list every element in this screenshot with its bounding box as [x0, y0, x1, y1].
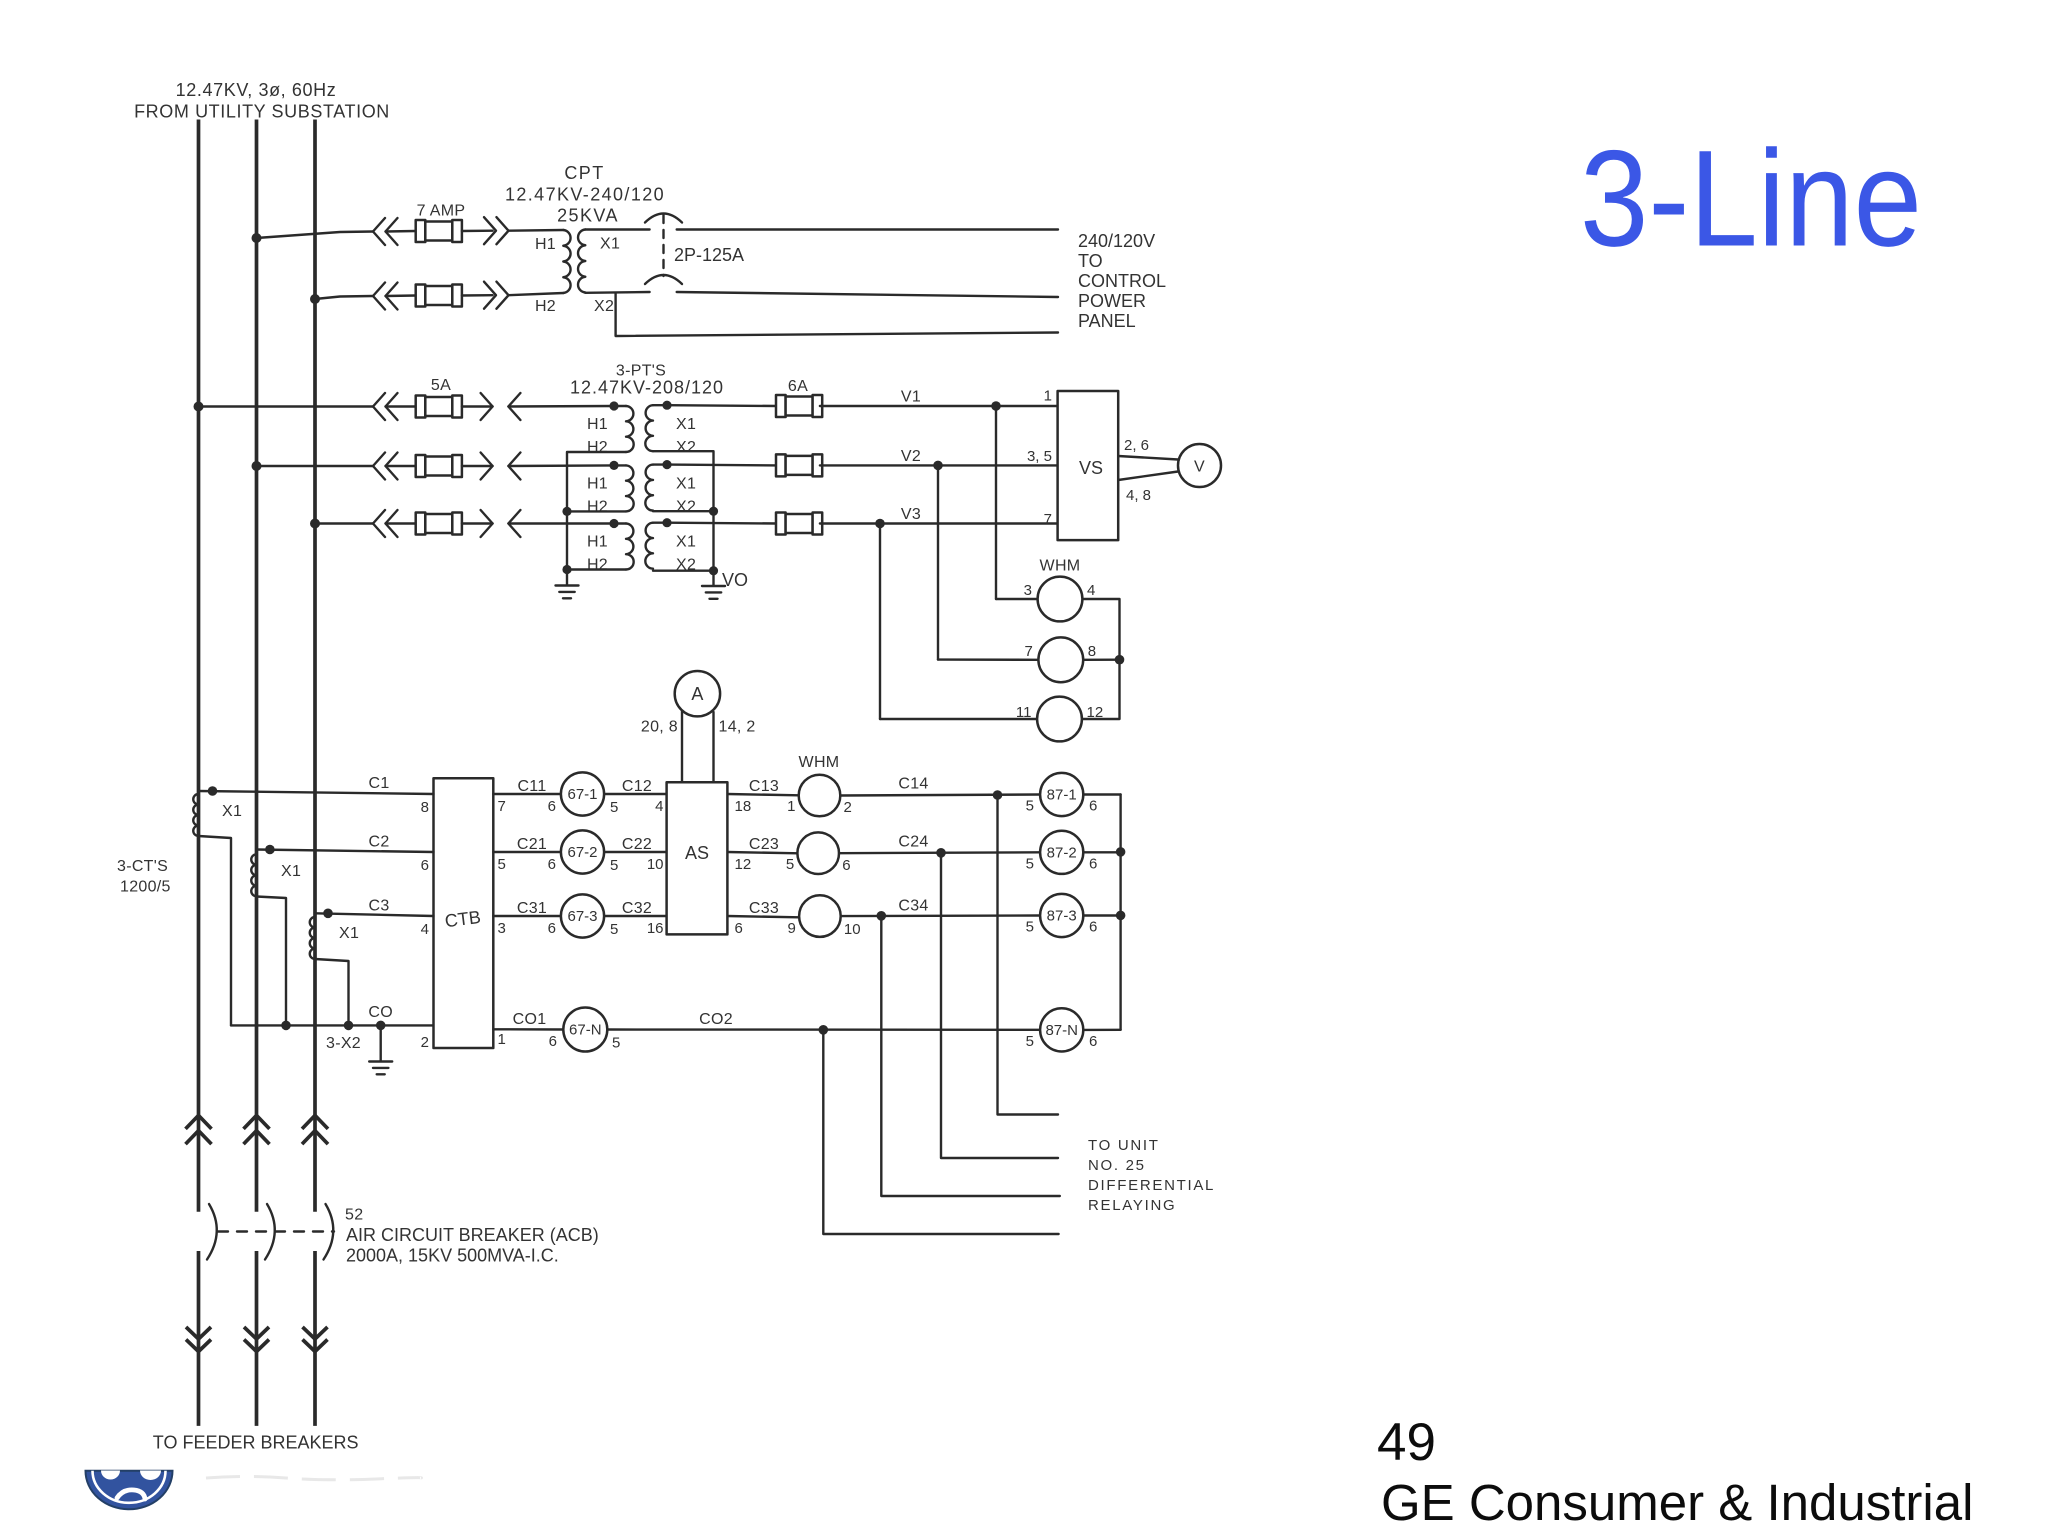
- svg-text:6: 6: [1089, 798, 1097, 815]
- svg-text:C13: C13: [749, 778, 779, 795]
- breaker 2P-125A dashed tie: [662, 215, 664, 276]
- wire to WHM coil 1: [996, 598, 1038, 600]
- node V2: [933, 461, 943, 471]
- svg-text:7: 7: [1024, 643, 1032, 660]
- svg-text:2: 2: [421, 1034, 429, 1051]
- relay 87-2: [1040, 831, 1083, 874]
- svg-text:X2: X2: [676, 439, 696, 456]
- wire V3 drop to WHM: [879, 524, 881, 720]
- svg-text:16: 16: [647, 920, 664, 937]
- wire C11: [493, 793, 561, 795]
- svg-text:C12: C12: [622, 778, 652, 795]
- node CO2: [819, 1025, 829, 1035]
- wire C12: [604, 793, 667, 795]
- svg-text:1200/5: 1200/5: [120, 879, 171, 896]
- ammeter switch AS box: [667, 782, 728, 934]
- svg-text:TO UNIT: TO UNIT: [1088, 1137, 1160, 1154]
- node CT1 X1: [208, 786, 218, 796]
- svg-text:NO. 25: NO. 25: [1088, 1157, 1146, 1174]
- bus drawout arrows up: [186, 1115, 212, 1129]
- node PT1 H1: [609, 401, 618, 410]
- svg-text:9: 9: [788, 920, 796, 937]
- svg-text:2, 6: 2, 6: [1124, 437, 1149, 454]
- svg-text:6: 6: [421, 857, 429, 874]
- svg-text:3-CT'S: 3-CT'S: [117, 858, 168, 875]
- svg-text:5: 5: [1026, 798, 1034, 815]
- fuse 5A PT2: [416, 455, 462, 477]
- current transformer CT3: [310, 917, 315, 959]
- svg-text:GE Consumer & Industrial: GE Consumer & Industrial: [1381, 1474, 1973, 1531]
- wire WHM coil 2 to common: [1083, 659, 1119, 661]
- drawout chevron: [373, 453, 385, 480]
- wire 87-N to common: [1083, 1029, 1120, 1031]
- wire: [614, 464, 626, 466]
- node PT2 H1: [609, 461, 618, 470]
- node CT2 X1: [265, 845, 275, 855]
- wire to PT3 H1: [508, 522, 614, 524]
- svg-text:18: 18: [735, 798, 752, 815]
- wire ammeter leg 14-2: [712, 712, 714, 782]
- WHM potential coil circle: [1038, 637, 1083, 682]
- node PT2 X1: [662, 460, 671, 469]
- wire bus B to CPT fuse: [257, 232, 374, 239]
- bus phase A lower: [197, 1251, 201, 1426]
- bus phase B lower: [255, 1251, 259, 1426]
- svg-text:11: 11: [1016, 704, 1032, 721]
- svg-text:4, 8: 4, 8: [1126, 487, 1151, 504]
- fuse 5A PT3: [416, 513, 462, 535]
- svg-text:CONTROL: CONTROL: [1078, 271, 1166, 291]
- wire to PT1 H1: [508, 405, 614, 408]
- svg-text:1: 1: [498, 1031, 506, 1048]
- node V3: [875, 519, 885, 529]
- svg-text:5: 5: [786, 856, 794, 873]
- svg-text:C24: C24: [898, 834, 928, 851]
- svg-text:67-3: 67-3: [567, 908, 597, 925]
- node CO CT2: [281, 1021, 291, 1031]
- svg-text:AS: AS: [685, 843, 709, 863]
- svg-text:8: 8: [1088, 643, 1096, 660]
- drawout chevron: [497, 282, 509, 309]
- svg-text:C31: C31: [517, 900, 547, 917]
- wire C34: [841, 914, 1040, 917]
- breaker 52 pole contact arcs: [265, 1204, 275, 1260]
- PT3 primary winding H1-H2: [626, 524, 634, 570]
- wire PT secondary neutral VO: [653, 451, 714, 585]
- svg-text:CPT: CPT: [564, 163, 604, 183]
- fuse 6A PT2: [776, 454, 822, 476]
- ground PT primary neutral: [556, 586, 579, 599]
- PT1 primary winding H1-H2: [626, 406, 634, 452]
- wire: [462, 405, 493, 407]
- wire V1 drop to WHM: [995, 406, 997, 599]
- wire C31: [493, 915, 561, 917]
- drawout stab left: [508, 453, 520, 480]
- svg-text:2: 2: [844, 799, 852, 816]
- svg-text:A: A: [691, 684, 703, 704]
- svg-text:C22: C22: [622, 836, 652, 853]
- node CO CT3: [344, 1021, 354, 1031]
- svg-text:6A: 6A: [788, 378, 808, 395]
- node PT3 X1: [662, 518, 671, 527]
- wire X1 out left part: [585, 228, 649, 230]
- svg-text:X1: X1: [676, 475, 696, 492]
- svg-text:4: 4: [1087, 582, 1095, 599]
- svg-text:6: 6: [735, 920, 743, 937]
- bus phase A upper: [197, 120, 201, 1212]
- svg-text:X2: X2: [676, 498, 696, 515]
- svg-text:CO: CO: [368, 1004, 393, 1021]
- drawout stab right: [481, 510, 493, 537]
- node CPT H1 tap: [252, 233, 262, 243]
- svg-text:3-X2: 3-X2: [326, 1035, 361, 1052]
- svg-text:20, 8: 20, 8: [641, 719, 678, 736]
- svg-text:C2: C2: [368, 834, 389, 851]
- wire: [462, 465, 493, 467]
- node PT1 X1: [662, 401, 671, 410]
- wire C1: [199, 791, 434, 794]
- wire C13: [727, 794, 798, 795]
- svg-text:C21: C21: [517, 836, 547, 853]
- svg-text:3-Line: 3-Line: [1580, 123, 1922, 276]
- svg-text:3: 3: [1024, 582, 1032, 599]
- relay 67-N: [563, 1008, 607, 1052]
- wire PT3 H2 to neutral: [567, 568, 626, 570]
- svg-text:2P-125A: 2P-125A: [674, 245, 744, 265]
- wire 87 row to common: [1083, 914, 1120, 916]
- svg-text:X1: X1: [600, 236, 620, 253]
- PT1 secondary winding X1-X2: [645, 405, 653, 451]
- fuse CPT H2: [416, 285, 462, 307]
- svg-text:X1: X1: [281, 863, 301, 880]
- bus drawout arrows up: [244, 1115, 270, 1129]
- svg-text:5: 5: [1026, 1033, 1034, 1050]
- wire C2: [257, 850, 434, 853]
- svg-text:X2: X2: [594, 298, 614, 315]
- breaker 2P-125A lower contact arc: [645, 275, 682, 284]
- node C34: [877, 911, 887, 921]
- fuse 6A PT3: [776, 513, 822, 535]
- bus phase B upper: [255, 120, 259, 1212]
- faint scan smudge line: [206, 1477, 421, 1480]
- node PT neutral j1: [562, 507, 571, 516]
- svg-text:WHM: WHM: [1040, 558, 1081, 575]
- svg-text:12: 12: [1087, 704, 1104, 721]
- svg-text:7: 7: [498, 798, 506, 815]
- svg-text:4: 4: [421, 921, 429, 938]
- svg-text:VO: VO: [722, 570, 748, 590]
- drawout chevron: [373, 393, 385, 420]
- svg-text:67-2: 67-2: [567, 844, 597, 861]
- wire to WHM coil 3: [880, 718, 1037, 720]
- svg-text:V3: V3: [901, 506, 921, 523]
- bus drawout arrows down: [186, 1327, 211, 1339]
- node PT3 tap: [310, 519, 320, 529]
- wire: [462, 294, 493, 297]
- wire to CPT H2: [509, 293, 564, 295]
- svg-text:C3: C3: [368, 897, 389, 914]
- wire C33: [727, 916, 798, 917]
- drawout chevron: [386, 510, 398, 537]
- wire to CPT H1: [509, 229, 564, 232]
- WHM current coil circle: [797, 832, 839, 874]
- PT2 secondary winding X1-X2: [645, 465, 653, 511]
- wire: [386, 465, 416, 467]
- wire: [462, 522, 493, 524]
- wire CO2: [607, 1028, 1040, 1031]
- drawout stab right: [481, 393, 493, 420]
- breaker 2P-125A upper contact arc: [645, 214, 682, 223]
- wire V3: [820, 522, 880, 524]
- relay 87-1: [1040, 773, 1083, 816]
- voltmeter V: [1178, 444, 1221, 487]
- node CT3 X1: [323, 909, 333, 919]
- wire: [386, 294, 416, 297]
- drawout stab left: [508, 393, 520, 420]
- svg-text:8: 8: [421, 799, 429, 816]
- svg-text:12.47KV-240/120: 12.47KV-240/120: [505, 185, 665, 205]
- wire X2 out left part: [585, 291, 649, 294]
- wire VS to voltmeter: [1118, 472, 1178, 481]
- wire: [386, 522, 416, 524]
- node PT neutral j2: [562, 565, 571, 574]
- svg-text:H1: H1: [587, 475, 608, 492]
- current test block CTB: [434, 778, 494, 1048]
- svg-text:6: 6: [1089, 919, 1097, 936]
- wire C23: [727, 852, 798, 853]
- wire bus to PT1 fuse: [199, 405, 374, 407]
- drawout chevron: [386, 453, 398, 480]
- svg-text:WHM: WHM: [799, 754, 840, 771]
- fuse 7 AMP: [416, 220, 462, 242]
- wire CO common: [231, 1024, 434, 1026]
- relay 67-3: [561, 894, 604, 937]
- svg-text:RELAYING: RELAYING: [1088, 1197, 1176, 1214]
- wire X1 to 6A fuse: [667, 522, 778, 525]
- wire C21: [493, 851, 561, 853]
- svg-text:X1: X1: [222, 803, 242, 820]
- svg-text:C11: C11: [517, 778, 546, 795]
- svg-text:C34: C34: [898, 898, 928, 915]
- wire VS to voltmeter: [1118, 456, 1178, 460]
- WHM potential coil circle: [1038, 577, 1083, 622]
- wire C22: [604, 851, 667, 853]
- WHM current coil circle: [799, 775, 841, 817]
- CPT transformer T1 primary winding H1-H2: [563, 230, 570, 293]
- bus drawout arrows up: [302, 1115, 328, 1129]
- wire C3: [315, 913, 434, 916]
- svg-text:C32: C32: [622, 900, 652, 917]
- wire V2 drop to WHM: [937, 465, 939, 659]
- svg-text:H2: H2: [587, 557, 608, 574]
- bus phase C lower: [313, 1251, 317, 1426]
- wire C24: [839, 851, 1040, 854]
- wire PT3 X2 to VO: [653, 570, 714, 572]
- svg-text:7 AMP: 7 AMP: [417, 203, 466, 220]
- svg-text:4: 4: [655, 798, 663, 815]
- PT2 primary winding H1-H2: [626, 465, 634, 511]
- wire X2 to control power panel: [677, 292, 1058, 297]
- svg-text:6: 6: [548, 856, 556, 873]
- drawout chevron: [497, 217, 509, 244]
- node C14: [993, 790, 1003, 800]
- svg-text:67-1: 67-1: [567, 786, 597, 803]
- drawout stab left: [508, 510, 520, 537]
- svg-text:TO: TO: [1078, 251, 1103, 271]
- svg-text:1: 1: [1044, 388, 1052, 405]
- wire: [462, 229, 493, 232]
- svg-text:49: 49: [1377, 1413, 1436, 1472]
- CPT transformer T1 secondary winding X1-X2: [578, 230, 585, 293]
- wire bus to PT2 fuse: [257, 465, 374, 467]
- svg-text:25KVA: 25KVA: [557, 206, 619, 226]
- drawout chevron: [386, 218, 398, 245]
- wire CT1 X2 lead: [199, 836, 232, 1025]
- WHM potential coil circle: [1037, 697, 1082, 742]
- relay 87-3: [1040, 894, 1083, 937]
- svg-text:V: V: [1194, 459, 1205, 476]
- wire V2 to VS: [938, 464, 1058, 466]
- node V1: [991, 401, 1001, 411]
- svg-text:X1: X1: [339, 925, 359, 942]
- svg-text:14, 2: 14, 2: [719, 719, 756, 736]
- svg-text:5A: 5A: [431, 377, 451, 394]
- relay 87-N: [1040, 1008, 1083, 1051]
- svg-text:H2: H2: [535, 298, 556, 315]
- wire CT2 X2 lead: [257, 897, 287, 1026]
- wire CT3 X2 lead: [315, 959, 349, 1025]
- wire CO2 to differential: [823, 1030, 1058, 1234]
- ammeter A: [675, 671, 720, 716]
- svg-text:6: 6: [548, 798, 556, 815]
- node PT1 tap: [194, 402, 204, 412]
- svg-text:87-N: 87-N: [1045, 1022, 1078, 1039]
- wire ammeter leg 20-8: [681, 711, 683, 782]
- svg-text:VS: VS: [1079, 458, 1103, 478]
- svg-text:87-2: 87-2: [1047, 844, 1077, 861]
- wire V1: [820, 405, 996, 407]
- svg-text:H2: H2: [587, 439, 608, 456]
- drawout stab right: [481, 453, 493, 480]
- voltmeter switch VS box: [1058, 391, 1119, 540]
- ground CO neutral: [369, 1062, 392, 1075]
- wire V2: [820, 464, 938, 466]
- wire PT2 X2 to VO: [653, 510, 714, 512]
- breaker 52 pole contact arcs: [324, 1204, 334, 1260]
- wire: [614, 522, 626, 524]
- svg-text:V1: V1: [901, 389, 921, 406]
- wire PT2 H2 to neutral: [567, 510, 626, 512]
- svg-text:67-N: 67-N: [569, 1022, 602, 1039]
- wire to PT2 H1: [508, 464, 614, 467]
- drawout chevron: [386, 393, 398, 420]
- drawout chevron: [386, 283, 398, 310]
- wire X1 to 6A fuse: [667, 404, 778, 407]
- svg-text:CO1: CO1: [513, 1011, 547, 1028]
- svg-text:6: 6: [549, 1033, 557, 1050]
- svg-text:10: 10: [844, 921, 861, 938]
- svg-text:12: 12: [735, 856, 752, 873]
- svg-text:5: 5: [1026, 855, 1034, 872]
- svg-text:3: 3: [498, 920, 506, 937]
- svg-text:6: 6: [548, 920, 556, 937]
- wire: [653, 404, 667, 406]
- wire X1 to 6A fuse: [667, 463, 778, 466]
- node WHM common: [1115, 655, 1125, 665]
- wire bus C to CPT fuse 2: [315, 296, 373, 299]
- svg-text:CO2: CO2: [699, 1011, 733, 1028]
- svg-text:240/120V: 240/120V: [1078, 231, 1155, 251]
- node CPT H2 tap: [310, 294, 320, 304]
- node VO j2: [709, 566, 718, 575]
- svg-text:2000A, 15KV 500MVA-I.C.: 2000A, 15KV 500MVA-I.C.: [346, 1246, 559, 1266]
- relay 67-1: [561, 772, 604, 815]
- svg-text:5: 5: [1026, 919, 1034, 936]
- svg-text:1: 1: [787, 798, 795, 815]
- svg-text:52: 52: [345, 1207, 363, 1224]
- svg-text:AIR CIRCUIT BREAKER (ACB): AIR CIRCUIT BREAKER (ACB): [346, 1225, 599, 1245]
- bus phase C upper: [313, 120, 317, 1212]
- fuse 6A PT1: [776, 395, 822, 417]
- current transformer CT1: [193, 794, 198, 836]
- svg-text:87-1: 87-1: [1047, 787, 1077, 804]
- node 87 common j1: [1116, 847, 1126, 857]
- drawout chevron: [373, 218, 385, 245]
- GE logo monogram disc: [86, 1471, 173, 1510]
- wire: [386, 230, 416, 233]
- wire 87 row to common: [1083, 851, 1120, 853]
- svg-text:V2: V2: [901, 448, 921, 465]
- wire: [614, 405, 626, 407]
- svg-text:3, 5: 3, 5: [1027, 448, 1052, 465]
- svg-text:7: 7: [1044, 511, 1052, 528]
- wire: [386, 405, 416, 407]
- wire C14 to differential: [998, 794, 1059, 1115]
- wire 87 relay common: [1119, 795, 1121, 1030]
- breaker 52 pole contact arcs: [207, 1204, 217, 1260]
- svg-text:POWER: POWER: [1078, 291, 1146, 311]
- wire V3 to VS: [880, 522, 1058, 524]
- node 87 common j2: [1116, 911, 1126, 921]
- breaker 52 dashed linkage: [218, 1230, 334, 1232]
- wire X1 to control power panel: [677, 228, 1058, 230]
- wire PT primary neutral: [567, 452, 626, 585]
- svg-text:C1: C1: [368, 775, 389, 792]
- wire bus to PT3 fuse: [315, 522, 373, 524]
- svg-text:10: 10: [647, 856, 664, 873]
- svg-text:12.47KV, 3ø, 60Hz: 12.47KV, 3ø, 60Hz: [176, 80, 337, 100]
- svg-text:H1: H1: [587, 416, 608, 433]
- svg-text:H1: H1: [587, 534, 608, 551]
- wire 87 row to common: [1083, 793, 1120, 795]
- svg-text:C23: C23: [749, 836, 779, 853]
- node VO j1: [709, 507, 718, 516]
- svg-text:5: 5: [610, 799, 618, 816]
- drawout chevron: [484, 217, 496, 244]
- svg-text:DIFFERENTIAL: DIFFERENTIAL: [1088, 1177, 1215, 1194]
- wire C34 to differential: [881, 916, 1060, 1196]
- relay 67-2: [561, 830, 604, 873]
- svg-text:C33: C33: [749, 900, 779, 917]
- svg-text:87-3: 87-3: [1047, 908, 1077, 925]
- bus drawout arrows down: [303, 1327, 328, 1339]
- wire ground stem: [380, 1025, 382, 1060]
- svg-text:5: 5: [498, 856, 506, 873]
- wire C14: [840, 795, 1040, 796]
- drawout chevron: [373, 283, 385, 310]
- wire: [653, 463, 667, 465]
- svg-text:X1: X1: [676, 416, 696, 433]
